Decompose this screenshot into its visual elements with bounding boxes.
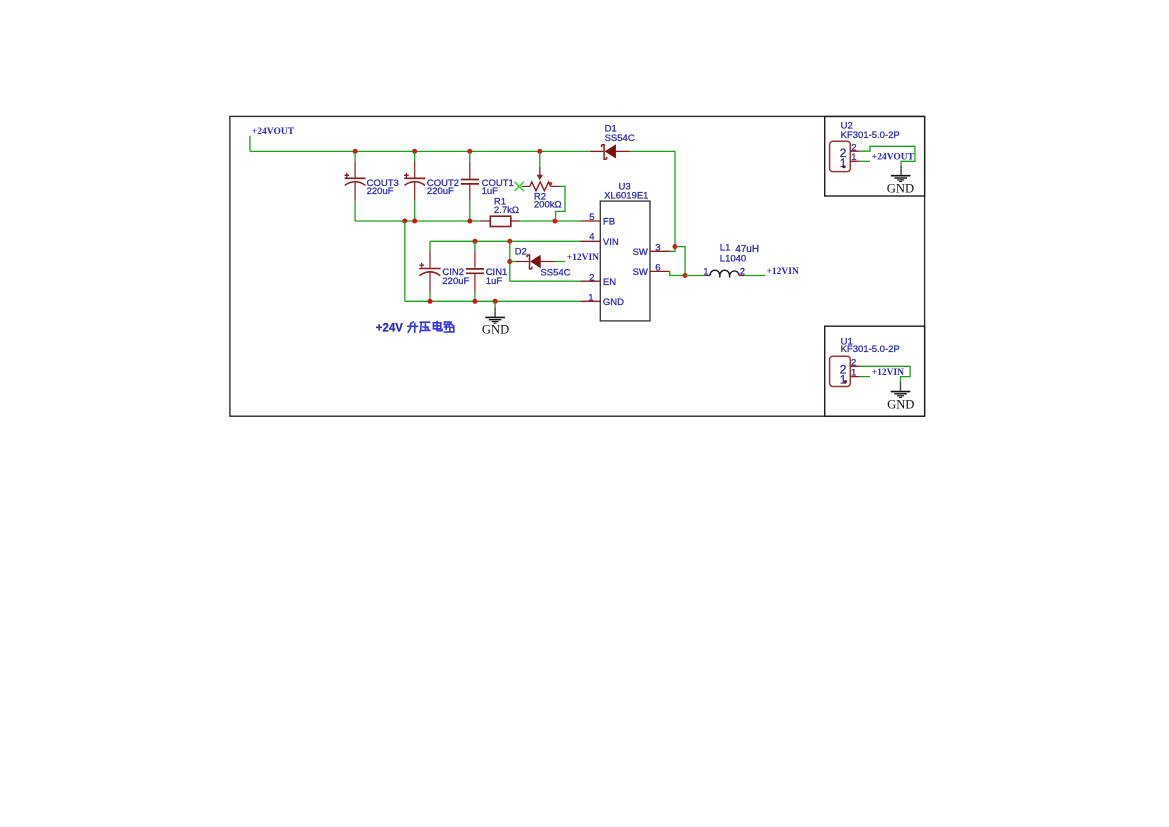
pin 2 EN bbox=[580, 272, 616, 287]
label L1 value 47uH bbox=[735, 244, 759, 255]
svg-text:220uF: 220uF bbox=[427, 186, 454, 197]
connector U1 body bbox=[830, 356, 851, 386]
junction GND rail at CIN1 bbox=[472, 299, 477, 304]
pin 5 FB bbox=[580, 212, 615, 227]
label L1 part L1040 bbox=[720, 254, 746, 265]
svg-text:VIN: VIN bbox=[603, 237, 619, 248]
label U1 bbox=[841, 337, 853, 348]
pin 6 SW bbox=[633, 263, 669, 278]
svg-text:220uF: 220uF bbox=[442, 276, 469, 287]
label D2 value SS54C bbox=[540, 267, 570, 278]
wire U1 pin1 stub bbox=[859, 376, 870, 378]
wire U1 pin2 to GND loop bbox=[859, 366, 910, 381]
junction GND rail at CIN2 bbox=[428, 299, 433, 304]
wire U2 pin2 to GND loop bbox=[859, 146, 915, 165]
label R1 bbox=[494, 197, 506, 208]
label R2 value 200kΩ bbox=[534, 200, 562, 211]
svg-text:SW: SW bbox=[633, 247, 648, 258]
label title +24V升压电路 (CJK drawn as paths) bbox=[376, 321, 454, 334]
pin 3 SW bbox=[633, 242, 670, 258]
label CIN2 value 220uF bbox=[442, 276, 469, 287]
svg-text:SS54C: SS54C bbox=[540, 267, 570, 278]
junction top rail at COUT2 bbox=[412, 149, 417, 154]
pin 2 of L1 bbox=[740, 266, 745, 277]
pin 2 of U2 bbox=[850, 142, 859, 153]
connector U2 body bbox=[830, 141, 851, 171]
inductor L1 bbox=[704, 270, 744, 277]
node +24VOUT net label at U2 bbox=[872, 152, 915, 162]
connector U1 block outline bbox=[825, 326, 925, 416]
ground symbol U2 bbox=[891, 166, 911, 182]
wire D2 anode stub bbox=[555, 261, 565, 263]
label U1 value KF301-5.0-2P bbox=[841, 344, 900, 355]
svg-text:200kΩ: 200kΩ bbox=[534, 200, 562, 211]
label COUT1 value 1uF bbox=[482, 186, 499, 197]
svg-text:4: 4 bbox=[589, 232, 594, 243]
svg-text:1: 1 bbox=[851, 367, 856, 378]
svg-text:SS54C: SS54C bbox=[605, 133, 635, 144]
svg-text:+12VIN: +12VIN bbox=[567, 253, 599, 263]
svg-text:6: 6 bbox=[655, 263, 660, 274]
wire VIN rail bbox=[430, 240, 580, 242]
node GND label at U2 bbox=[887, 181, 914, 195]
potentiometer R2 bbox=[515, 167, 560, 191]
junction top rail at COUT3 bbox=[353, 149, 358, 154]
junction bottom rail at COUT1 bbox=[467, 219, 472, 224]
junction bottom rail at R2 tap bbox=[553, 219, 558, 224]
svg-text:5: 5 bbox=[589, 212, 594, 223]
label R2 bbox=[534, 192, 546, 203]
wire U2 pin1 stub bbox=[859, 160, 870, 162]
connector U2 inside pin numbers bbox=[840, 146, 847, 170]
connector U2 pin1 marker dot bbox=[842, 165, 845, 168]
node +12VIN net label at L1 output bbox=[767, 267, 799, 277]
svg-text:3: 3 bbox=[655, 242, 660, 253]
pin 1 GND bbox=[580, 292, 624, 308]
potentiometer R2 arrow branch wire bbox=[539, 151, 541, 166]
node +24VOUT net label bbox=[252, 127, 295, 137]
svg-text:KF301-5.0-2P: KF301-5.0-2P bbox=[841, 344, 900, 355]
svg-text:SW: SW bbox=[633, 267, 648, 278]
node GND label (main) bbox=[482, 323, 509, 337]
label U2 value KF301-5.0-2P bbox=[841, 130, 900, 141]
label COUT3 value 220uF bbox=[367, 186, 394, 197]
label D2 bbox=[515, 247, 527, 258]
svg-text:+24VOUT: +24VOUT bbox=[872, 152, 915, 162]
wire +24VOUT stub bbox=[249, 136, 251, 152]
label D1 bbox=[605, 124, 617, 135]
label COUT3 bbox=[367, 178, 399, 189]
capacitor COUT3 bbox=[345, 151, 366, 221]
wire D2 left lead bbox=[510, 261, 529, 263]
svg-text:2: 2 bbox=[589, 272, 594, 283]
op-amp U3 body bbox=[600, 201, 650, 321]
junction GND rail at ground symbol bbox=[493, 299, 498, 304]
svg-text:2: 2 bbox=[740, 266, 745, 277]
wire L1 output bbox=[744, 275, 765, 277]
svg-text:L1: L1 bbox=[720, 243, 731, 254]
diode D1 bbox=[602, 145, 630, 160]
label CIN2 bbox=[442, 267, 464, 278]
svg-text:GND: GND bbox=[603, 297, 624, 308]
label U3 value XL6019E1 bbox=[604, 191, 648, 202]
wire D1 to SW corner bbox=[630, 151, 675, 246]
wire FB bottom rail bbox=[355, 220, 580, 222]
junction D2 branch at diode bbox=[507, 259, 512, 264]
label COUT2 value 220uF bbox=[427, 186, 454, 197]
pin 4 VIN bbox=[580, 232, 618, 248]
border frame (decorative) bbox=[230, 116, 925, 416]
svg-text:220uF: 220uF bbox=[367, 186, 394, 197]
wire inductor L1 input from SW node bbox=[685, 275, 704, 277]
svg-text:+12VIN: +12VIN bbox=[872, 368, 904, 378]
svg-text:+24V: +24V bbox=[376, 323, 404, 335]
wire GND rail bbox=[405, 300, 581, 302]
wire EN rail bbox=[510, 280, 581, 282]
pin 1 of U1 bbox=[850, 367, 859, 378]
label D1 value SS54C bbox=[605, 133, 635, 144]
label U2 bbox=[841, 121, 853, 132]
svg-text:2.7kΩ: 2.7kΩ bbox=[494, 205, 519, 216]
svg-text:1: 1 bbox=[851, 152, 856, 163]
label CIN1 value 1uF bbox=[486, 276, 503, 287]
label CIN1 bbox=[486, 267, 508, 278]
wire +24VOUT top rail bbox=[250, 150, 590, 152]
svg-text:+12VIN: +12VIN bbox=[767, 267, 799, 277]
svg-text:GND: GND bbox=[482, 323, 509, 337]
capacitor CIN2 bbox=[419, 241, 440, 301]
junction top rail at COUT1 bbox=[467, 149, 472, 154]
junction top rail at R2 bbox=[537, 149, 542, 154]
label COUT1 bbox=[482, 178, 514, 189]
wire D2 branch vertical bbox=[509, 241, 511, 281]
svg-text:GND: GND bbox=[887, 181, 914, 195]
svg-text:+24VOUT: +24VOUT bbox=[252, 127, 295, 137]
svg-text:1: 1 bbox=[588, 292, 593, 303]
ground symbol U1 bbox=[891, 381, 911, 397]
resistor R1 bbox=[480, 216, 520, 226]
connector U1 inside pin numbers bbox=[840, 363, 847, 387]
svg-text:GND: GND bbox=[887, 398, 914, 412]
svg-text:D2: D2 bbox=[515, 247, 527, 258]
svg-text:1uF: 1uF bbox=[482, 186, 499, 197]
node +12VIN net label at D2 bbox=[567, 253, 599, 263]
label L1 bbox=[720, 243, 731, 254]
svg-text:XL6019E1: XL6019E1 bbox=[604, 191, 648, 202]
wire SW6 jog bbox=[669, 271, 685, 275]
label COUT2 bbox=[427, 178, 459, 189]
junction VIN rail at CIN1 bbox=[472, 239, 477, 244]
pin 1 of L1 bbox=[703, 267, 708, 278]
wire D1 cathode lead bbox=[590, 150, 603, 152]
connector U1 pin1 marker dot bbox=[844, 380, 847, 383]
wire R2 to FB rail bbox=[556, 186, 565, 221]
pin 2 of U1 bbox=[850, 358, 859, 369]
svg-text:EN: EN bbox=[603, 277, 616, 288]
wire SW3 jog to node bbox=[670, 247, 675, 252]
svg-text:KF301-5.0-2P: KF301-5.0-2P bbox=[841, 130, 900, 141]
svg-text:1: 1 bbox=[840, 373, 847, 387]
label R1 value 2.7kΩ bbox=[494, 205, 519, 216]
junction SW node top bbox=[673, 244, 678, 249]
wire left vertical COUT rail to GND rail bbox=[404, 221, 406, 301]
pin 1 of U2 bbox=[850, 152, 859, 163]
junction VIN rail at D2 branch bbox=[507, 239, 512, 244]
ground symbol (main) bbox=[485, 301, 505, 323]
junction bottom rail at left vertical bbox=[402, 219, 407, 224]
connector U2 block outline bbox=[825, 117, 925, 197]
node GND label at U1 bbox=[887, 398, 914, 412]
capacitor CIN1 bbox=[466, 241, 484, 301]
wire SW node down bbox=[675, 247, 685, 276]
junction SW node bottom bbox=[683, 273, 688, 278]
svg-text:L1040: L1040 bbox=[720, 254, 746, 265]
svg-text:FB: FB bbox=[603, 217, 615, 228]
node +12VIN net label at U1 bbox=[872, 368, 904, 378]
capacitor COUT2 bbox=[404, 151, 425, 221]
svg-text:1uF: 1uF bbox=[486, 276, 503, 287]
junction bottom rail at COUT2 bbox=[412, 219, 417, 224]
label U3 bbox=[619, 182, 631, 193]
capacitor COUT1 bbox=[461, 151, 479, 221]
diode D2 bbox=[527, 255, 555, 269]
svg-text:1: 1 bbox=[703, 267, 708, 278]
